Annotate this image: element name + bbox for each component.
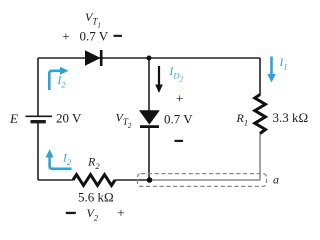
svg-text:5.6 kΩ: 5.6 kΩ [78, 190, 114, 205]
polarity label + 0.7 V - for D1 [62, 29, 122, 44]
svg-text:0.7 V: 0.7 V [164, 112, 193, 127]
wire middle upper (top junction to diode D2) [148, 58, 150, 111]
svg-text:a: a [273, 173, 279, 187]
current arrow I2 (bottom left, blue bent arrow) [46, 149, 72, 169]
svg-text:I1: I1 [279, 57, 288, 72]
wire middle lower (diode D2 to bottom junction) [148, 127, 150, 180]
svg-text:V2: V2 [87, 206, 99, 223]
battery E [26, 116, 53, 121]
diode D2 (silicon, middle branch, pointing down) [139, 110, 160, 126]
polarity - below 0.7 V for D2 [175, 140, 184, 142]
svg-text:20 V: 20 V [56, 111, 82, 126]
wire top (E to node at top of R1) [38, 57, 260, 59]
svg-text:R1: R1 [236, 111, 249, 128]
svg-text:+: + [117, 207, 125, 222]
svg-text:I2: I2 [62, 153, 72, 168]
junction dot at bottom of middle branch (node a) [147, 177, 153, 183]
svg-text:0.7 V: 0.7 V [80, 29, 109, 44]
svg-text:+: + [62, 29, 69, 44]
resistor R2 (5.6 kOhm, bottom branch) [73, 175, 115, 186]
wire bottom left (corner to R2) [38, 179, 73, 181]
svg-text:R2: R2 [87, 155, 100, 172]
wire right lower gray segment (R1 to node a) [259, 134, 261, 181]
current arrow I2 (top left, blue bent arrow) [49, 67, 68, 90]
wire left lower (battery to bottom corner) [37, 123, 39, 180]
wire bottom right gray segment inside dashed box to node a [150, 179, 260, 181]
svg-text:E: E [9, 111, 18, 126]
svg-text:+: + [176, 91, 183, 106]
diode D1 (silicon, top branch) [85, 50, 101, 66]
wire bottom middle (R2 to junction) [115, 179, 150, 181]
dashed highlight box around bottom conductor (node a) [138, 174, 267, 187]
resistor R1 (3.3 kOhm, right branch) [255, 95, 266, 134]
polarity label - V2 + across R2 [66, 206, 125, 223]
junction dot at top of middle branch [147, 56, 152, 61]
svg-text:VT1: VT1 [85, 10, 101, 30]
svg-text:ID2: ID2 [169, 66, 184, 84]
svg-text:I2: I2 [57, 75, 67, 90]
current arrow I1 (blue, pointing down along right branch) [267, 57, 275, 83]
wire left upper (top corner to battery) [37, 58, 39, 116]
current arrow ID2 (black, pointing down) [155, 66, 163, 93]
wire right upper (top corner to R1) [259, 58, 261, 95]
svg-text:3.3 kΩ: 3.3 kΩ [273, 110, 309, 125]
svg-text:VT2: VT2 [116, 111, 132, 131]
